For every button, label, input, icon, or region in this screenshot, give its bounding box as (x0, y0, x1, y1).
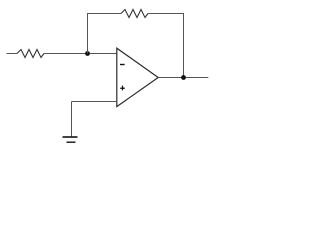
op-amp U1 minus pin symbol (120, 64, 125, 65)
wire non-inverting input (72, 101, 117, 103)
wire feedback top left (87, 13, 121, 15)
op-amp U1 plus pin symbol (120, 86, 125, 91)
node A junction dot (inverting input) (85, 51, 90, 56)
wire feedback left vertical (87, 14, 89, 54)
op-amp U1 (117, 48, 158, 106)
wire feedback top right (148, 13, 184, 15)
wire R1 to inverting input (44, 53, 117, 55)
node B junction dot (output) (181, 75, 186, 80)
wire feedback right vertical (183, 14, 185, 78)
resistor R1 (17, 50, 44, 58)
wire output (158, 77, 208, 79)
ground (63, 137, 78, 142)
wire ground stem (71, 102, 73, 138)
resistor R2 (121, 10, 148, 18)
wire input stub left (7, 53, 18, 55)
